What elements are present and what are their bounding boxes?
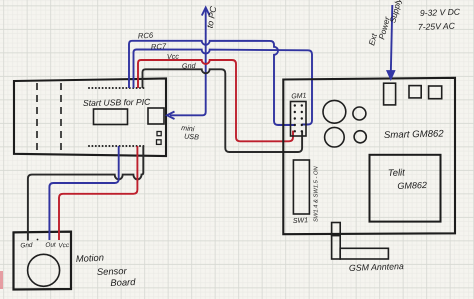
hole circle small 1 [353, 107, 366, 120]
module: Telit GM862 [370, 155, 441, 222]
perforation dashed line left 2 [60, 83, 62, 152]
svg-text:GSM Anntena: GSM Anntena [349, 261, 404, 273]
bottom pin header row of Start USB board [88, 145, 144, 147]
GSM antenna connector on board edge [332, 223, 341, 236]
svg-text:Telit: Telit [388, 166, 406, 178]
svg-text:GM1: GM1 [291, 92, 307, 100]
power connector on board top [384, 83, 396, 105]
svg-text:Gnd: Gnd [182, 61, 197, 71]
svg-text:RC6: RC6 [138, 31, 154, 41]
arrowhead: into mini USB (left) [167, 112, 175, 120]
GM1 pins [294, 104, 303, 132]
small pad square 1 [157, 132, 161, 136]
wire: sensor Out (blue) [49, 146, 118, 240]
svg-text:Sensor: Sensor [97, 265, 128, 277]
mounting hole circle big 2 [325, 127, 345, 147]
svg-text:Vcc: Vcc [58, 242, 70, 250]
svg-text:RC7: RC7 [151, 42, 167, 52]
arrowhead power supply (down) [387, 71, 395, 81]
svg-text:SW1.4 & SW1.5 - ON: SW1.4 & SW1.5 - ON [314, 165, 320, 222]
PIR lens circle [28, 254, 60, 286]
svg-text:Start USB for PIC: Start USB for PIC [83, 97, 151, 108]
svg-text:Board: Board [110, 276, 136, 288]
arrowhead: to PC (up) [202, 8, 210, 16]
wire: sensor Vcc (red) [59, 146, 137, 240]
board: Smart GM862 [283, 78, 455, 234]
svg-text:7-25V AC: 7-25V AC [418, 21, 456, 32]
svg-text:SW1: SW1 [293, 217, 309, 225]
connector GM1 [291, 102, 307, 137]
top pin header row of Start USB board [88, 87, 144, 89]
svg-text:Motion: Motion [76, 252, 105, 264]
wire Gnd (black): pin to GM1 bottom-right pin [143, 69, 303, 152]
board: Start USB for PIC [14, 79, 166, 157]
switch SW1 [293, 160, 309, 214]
svg-text:Smart GM862: Smart GM862 [384, 128, 445, 141]
wire Vcc (red): pin to GM1 bottom-left pin [138, 60, 293, 141]
perforation dashed line left 1 [36, 83, 38, 152]
small pad square 2 [157, 140, 162, 145]
svg-text:GM862: GM862 [397, 180, 427, 191]
svg-text:Out: Out [45, 241, 56, 249]
mounting hole circle big 1 [323, 100, 346, 123]
wire: USB cable to PC (blue vertical) [170, 9, 206, 115]
GSM antenna body vertical [332, 236, 341, 260]
wire RC6 (blue): pin up, right, down at x=274, into GM1 left column [129, 41, 294, 125]
svg-text:9-32 V DC: 9-32 V DC [420, 7, 461, 18]
GSM antenna body horizontal [340, 248, 388, 259]
hole circle small 2 [354, 131, 366, 143]
svg-text:Vcc: Vcc [167, 52, 180, 61]
wire RC7 (blue): pin up, right to x=312, down, into GM1 right column [134, 50, 313, 125]
wire: external power supply (blue arrow down) [391, 5, 393, 74]
scanner edge artifact (red smudge left margin) [0, 271, 3, 289]
mini USB connector [148, 108, 164, 124]
pad square top 2 [429, 86, 442, 99]
dot mark [37, 239, 39, 241]
pad square top 1 [409, 86, 421, 98]
board: Motion Sensor [14, 232, 72, 290]
svg-text:USB: USB [184, 132, 200, 142]
wire: sensor Gnd (black) [28, 146, 143, 241]
chip on Start USB board [94, 109, 128, 125]
svg-text:Gnd: Gnd [20, 242, 33, 250]
